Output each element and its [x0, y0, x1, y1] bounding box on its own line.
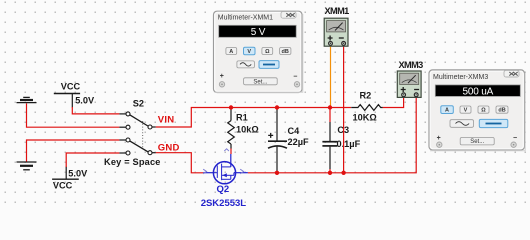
- svg-text:Key = Space: Key = Space: [104, 157, 161, 167]
- svg-text:2SK2553L: 2SK2553L: [201, 198, 247, 209]
- wire: VCC top to switch pole1 upper contact: [72, 107, 125, 114]
- svg-text:10kΩ: 10kΩ: [236, 125, 259, 135]
- svg-text:500 uA: 500 uA: [463, 87, 494, 98]
- wire: R1 to Q2 drain: [230, 149, 232, 155]
- svg-text:dB: dB: [282, 49, 289, 55]
- meter XMM3 icon: [397, 71, 421, 97]
- wire: bottom ground to switch pole2 upper contact: [27, 140, 126, 162]
- svg-text:Multimeter-XMM3: Multimeter-XMM3: [433, 74, 488, 81]
- svg-text:22µF: 22µF: [288, 137, 310, 147]
- svg-text:−: −: [513, 135, 517, 142]
- svg-text:VCC: VCC: [53, 180, 73, 190]
- wire: switch pole1 common to VIN net (top rail): [152, 108, 351, 128]
- svg-text:A: A: [445, 108, 449, 114]
- wire: VCC bottom to switch pole2 lower contact: [66, 153, 126, 167]
- wire: C3 top pin to VIN net: [329, 108, 331, 123]
- svg-text:dB: dB: [498, 108, 505, 114]
- svg-text:0.1µF: 0.1µF: [337, 139, 361, 149]
- wire: XMM1 - to ground rail: [343, 46, 345, 173]
- VCC rail (top): [54, 94, 80, 108]
- svg-text:+: +: [437, 135, 441, 142]
- wire: C3 bottom pin to rail: [329, 169, 331, 173]
- svg-text:R1: R1: [236, 112, 248, 122]
- resistor R1: [228, 108, 235, 149]
- svg-text:R2: R2: [360, 91, 372, 101]
- wire: XMM1 + to VIN net (orange): [330, 46, 332, 108]
- svg-text:Ω: Ω: [481, 108, 486, 114]
- svg-text:Q2: Q2: [217, 184, 230, 195]
- svg-text:Set...: Set...: [470, 139, 484, 145]
- window shadow XMM1: [215, 14, 303, 92]
- svg-text:Multimeter-XMM1: Multimeter-XMM1: [218, 15, 273, 22]
- svg-text:10KΩ: 10KΩ: [353, 113, 377, 123]
- transistor Q2 (N-MOSFET): [203, 154, 248, 184]
- junction dots (ground rail): [275, 171, 346, 175]
- svg-text:VIN: VIN: [158, 114, 175, 125]
- pin marker (gate): [203, 169, 206, 174]
- instrument window Multimeter-XMM1: [214, 11, 303, 92]
- ground (top-left, inverted): [17, 97, 37, 102]
- ground (bottom-left): [17, 162, 37, 170]
- svg-text:C4: C4: [288, 126, 301, 136]
- wire: bottom rail (source/ground net) to XMM3 -: [248, 96, 416, 173]
- svg-text:−: −: [293, 74, 297, 81]
- svg-text:V: V: [247, 49, 251, 55]
- svg-text:GND: GND: [158, 143, 180, 154]
- svg-text:Ω: Ω: [265, 49, 270, 55]
- svg-text:A: A: [229, 49, 233, 55]
- pin marker (source): [240, 169, 243, 174]
- svg-text:Set...: Set...: [253, 79, 267, 85]
- VCC rail (bottom): [52, 167, 79, 180]
- wire: switch pole2 common to GND net: [152, 153, 203, 173]
- svg-text:+: +: [220, 73, 224, 80]
- junction dots (VIN net): [229, 105, 332, 109]
- svg-text:XMM1: XMM1: [325, 6, 350, 16]
- svg-text:S2: S2: [133, 99, 144, 109]
- pin marker (drain): [224, 149, 229, 151]
- window shadow XMM3: [430, 73, 525, 151]
- svg-text:5.0V: 5.0V: [75, 95, 95, 105]
- svg-text:5.0V: 5.0V: [68, 169, 88, 179]
- switch S2 (DPDT): [126, 112, 152, 155]
- instrument window Multimeter-XMM3: [429, 70, 525, 150]
- capacitor C4: [268, 109, 287, 171]
- wire: top ground to switch pole1 lower contact: [27, 103, 126, 127]
- svg-text:V: V: [464, 108, 468, 114]
- wire: R2 to XMM3 +: [383, 96, 404, 108]
- meter XMM1 icon: [324, 18, 348, 46]
- label + (C4 polarity): [268, 133, 273, 138]
- svg-text:5 V: 5 V: [251, 27, 266, 38]
- capacitor C3: [322, 122, 337, 169]
- resistor R2: [351, 105, 383, 111]
- svg-text:VCC: VCC: [61, 82, 81, 92]
- svg-text:XMM3: XMM3: [399, 60, 424, 70]
